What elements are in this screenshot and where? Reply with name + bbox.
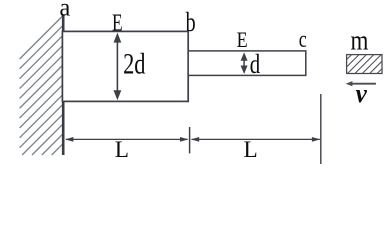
svg-text:d: d (250, 49, 261, 79)
svg-text:2d: 2d (123, 48, 146, 80)
dimension line L (right span) (191, 137, 320, 142)
svg-text:a: a (60, 0, 71, 21)
mass block m (347, 55, 382, 74)
svg-text:c: c (299, 27, 307, 53)
extension line at c (320, 94, 322, 164)
velocity arrow (346, 81, 376, 86)
svg-text:v: v (356, 79, 368, 108)
svg-text:E: E (237, 27, 248, 52)
bar section ab (diameter 2d) (62, 31, 188, 101)
svg-text:m: m (350, 26, 368, 57)
wall hatching (20, 16, 63, 155)
wall fixed-support line (62, 16, 65, 156)
bar section bc (diameter d) (188, 51, 306, 76)
svg-text:E: E (112, 9, 123, 36)
diameter arrow d (241, 52, 248, 74)
dimension tick at b (189, 127, 191, 153)
svg-text:L: L (244, 137, 258, 162)
mass block hatching (347, 55, 382, 74)
svg-text:b: b (186, 7, 196, 37)
svg-text:L: L (115, 137, 129, 162)
diameter arrow 2d (114, 33, 122, 101)
dimension line L (left span) (65, 137, 188, 142)
